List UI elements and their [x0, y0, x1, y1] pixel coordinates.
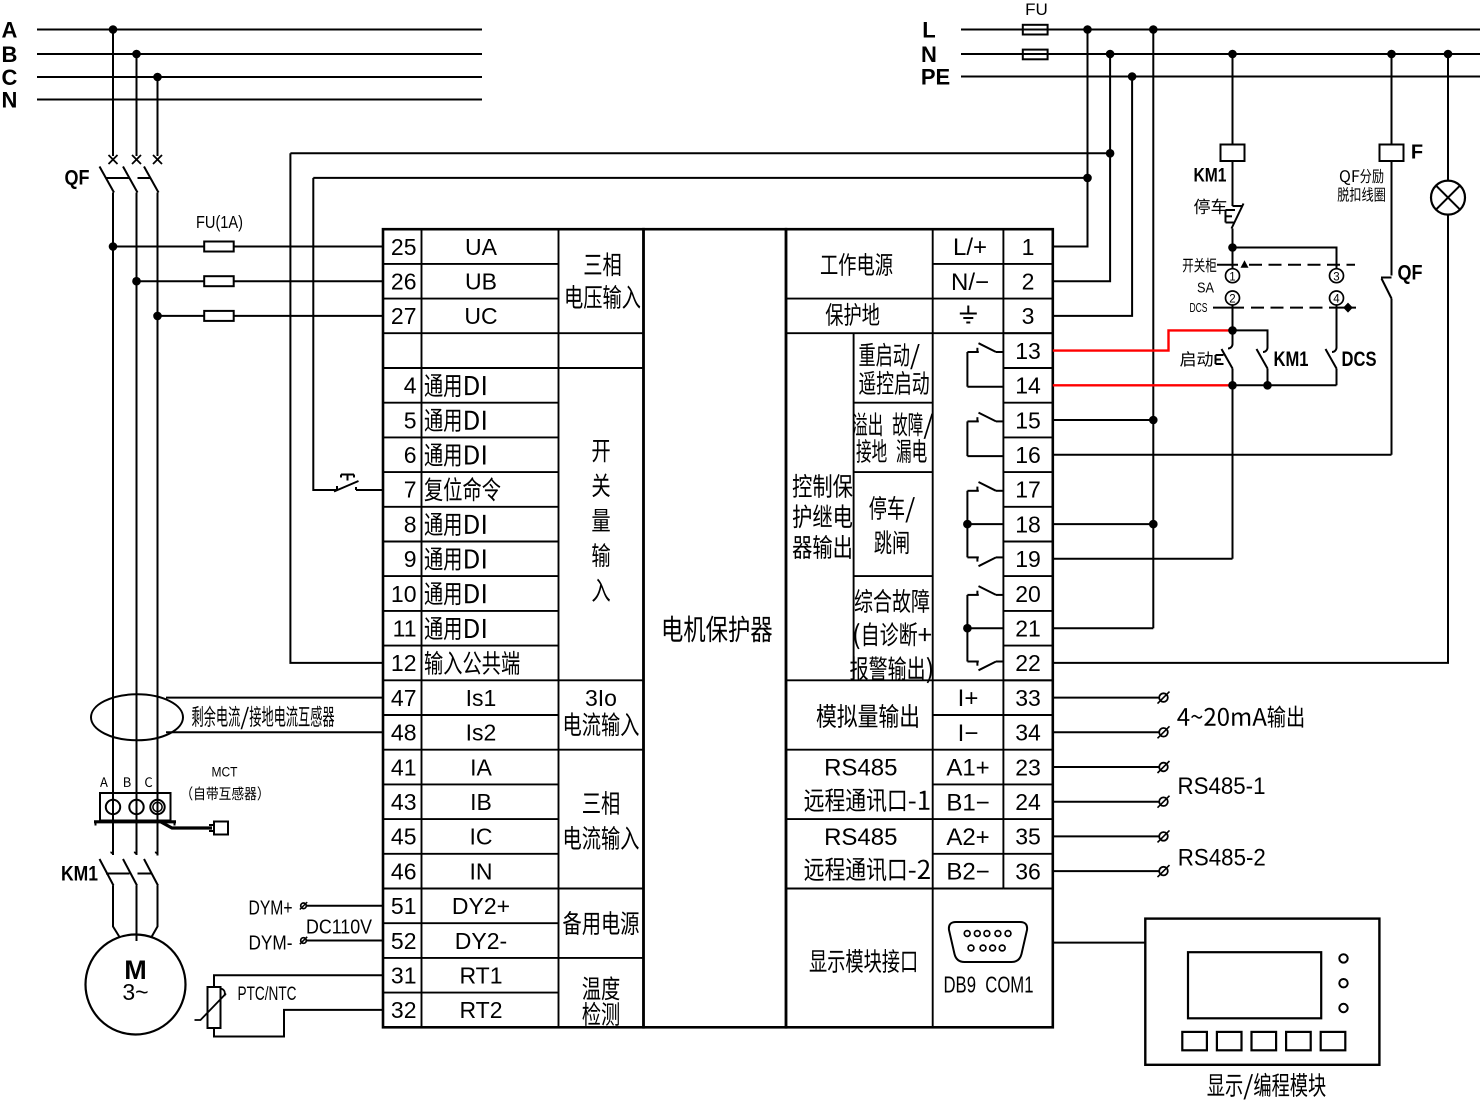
label FU	[1025, 0, 1048, 19]
wire thermistor to 32	[214, 1010, 383, 1037]
junction N KM1 branch	[1228, 50, 1237, 59]
bus N2	[961, 53, 1480, 55]
svg-text:RS485: RS485	[824, 824, 897, 851]
pin name 12	[425, 651, 520, 675]
svg-text:B2−: B2−	[946, 859, 989, 886]
svg-text:48: 48	[391, 720, 417, 746]
svg-text:DY2+: DY2+	[452, 893, 510, 919]
svg-text:6: 6	[404, 442, 417, 468]
terminal 6 number	[404, 442, 417, 468]
fuse FU(1A) phase C	[204, 311, 234, 321]
svg-text:9: 9	[404, 546, 417, 572]
wire SA branch right	[1233, 248, 1337, 269]
svg-text:DB9 COM1: DB9 COM1	[944, 971, 1034, 997]
net label N	[2, 87, 18, 112]
stub A2+ 35	[1053, 830, 1170, 842]
svg-text:FU: FU	[1025, 0, 1048, 19]
junction UC tap	[153, 312, 162, 321]
contactor KM1 label	[61, 863, 98, 886]
bus L	[961, 29, 1480, 31]
terminal 8 number	[404, 511, 417, 537]
pin name 51	[452, 893, 510, 919]
svg-text:2: 2	[1229, 294, 1235, 306]
terminal 4 number	[404, 373, 417, 399]
terminal 35 number	[1015, 824, 1041, 850]
display module screen	[1188, 952, 1321, 1018]
net label PE	[921, 64, 950, 89]
svg-text:IC: IC	[470, 824, 493, 850]
display module box	[1145, 919, 1379, 1065]
wire start to KM1-aux top	[1233, 330, 1268, 347]
svg-text:I−: I−	[958, 720, 979, 747]
phase mark B	[124, 777, 131, 787]
terminal 22 number	[1015, 650, 1041, 676]
pin name 48	[466, 720, 497, 746]
svg-text:KM1: KM1	[1194, 165, 1227, 186]
pin name 26	[465, 269, 497, 295]
svg-text:31: 31	[391, 963, 417, 989]
coil F (shunt trip)	[1380, 145, 1404, 162]
svg-text:A: A	[2, 17, 18, 42]
pin name 5	[425, 409, 486, 432]
svg-text:DC110V: DC110V	[306, 917, 373, 939]
terminal 24 number	[1015, 789, 1041, 815]
display module LEDs	[1339, 954, 1347, 1012]
wire fuse to terminal UB	[234, 280, 383, 282]
svg-text:IB: IB	[470, 789, 492, 815]
terminal 5 number	[404, 407, 417, 433]
svg-text:1: 1	[1229, 271, 1235, 283]
net label C	[2, 65, 18, 90]
pin I-	[958, 720, 979, 747]
svg-text:L/+: L/+	[953, 234, 987, 261]
svg-text:C: C	[2, 65, 18, 90]
svg-text:34: 34	[1015, 720, 1041, 746]
wire terminal 18	[1053, 523, 1154, 525]
svg-text:DCS: DCS	[1190, 301, 1208, 315]
SA linkage cabinet	[1217, 260, 1355, 268]
label SA switch-cabinet	[1183, 258, 1216, 273]
label PTC/NTC	[238, 983, 297, 1005]
junction 15 on common	[1149, 416, 1158, 425]
SA linkage DCS	[1213, 303, 1356, 313]
svg-text:MCT: MCT	[212, 764, 238, 780]
wire DYM+ to 51	[307, 905, 384, 907]
stub B1- 24	[1053, 796, 1170, 808]
wire Is1 to CT	[166, 697, 383, 699]
pushbutton reset (terminal 7)	[334, 475, 359, 492]
label DCS contact	[1342, 348, 1377, 371]
net label L	[922, 17, 935, 42]
terminal 43 number	[391, 789, 417, 815]
svg-text:Is2: Is2	[466, 720, 497, 746]
junction N drop	[1106, 50, 1115, 59]
wire phase B drop	[136, 54, 138, 156]
terminal 23 number	[1015, 754, 1041, 780]
CT residual-current transformer	[91, 694, 183, 740]
svg-text:RS485-2: RS485-2	[1178, 845, 1266, 872]
terminal 25 number	[391, 234, 417, 260]
svg-text:KM1: KM1	[61, 863, 98, 886]
pin L/+	[953, 234, 987, 261]
svg-text:7: 7	[404, 477, 417, 503]
svg-text:N: N	[2, 87, 18, 112]
wire lamp to terminal 22	[1053, 215, 1448, 663]
terminal 11 number	[393, 616, 417, 642]
pin name 9	[425, 548, 486, 571]
indicator lamp	[1431, 181, 1465, 215]
label comprehensive fault	[850, 589, 932, 683]
terminal 20 number	[1015, 581, 1041, 607]
svg-text:IA: IA	[470, 754, 492, 780]
SA contact 1	[1226, 269, 1240, 284]
svg-text:5: 5	[404, 407, 417, 433]
label QF aux	[1398, 262, 1423, 285]
svg-text:13: 13	[1015, 338, 1041, 364]
svg-text:FU(1A): FU(1A)	[196, 212, 243, 232]
junction 18 on common	[1149, 520, 1158, 529]
svg-text:DCS: DCS	[1342, 348, 1377, 371]
svg-text:2: 2	[1022, 269, 1035, 295]
wire L to terminal 1	[1053, 30, 1088, 247]
fuse FU(1A) label	[196, 212, 243, 232]
wire F coil to QF aux	[1391, 161, 1393, 276]
svg-text:UC: UC	[464, 303, 497, 329]
bus C	[37, 76, 482, 78]
svg-text:Is1: Is1	[466, 685, 497, 711]
svg-text:IN: IN	[470, 858, 493, 884]
wire SA4 down	[1336, 305, 1338, 348]
junction UA tap	[109, 242, 118, 251]
svg-text:26: 26	[391, 269, 417, 295]
coil KM1 label	[1194, 165, 1227, 186]
svg-text:1: 1	[1022, 234, 1035, 260]
label MCT	[212, 764, 238, 780]
terminal 51 number	[391, 893, 417, 919]
relay contact 15-16	[967, 413, 1003, 457]
terminal 13 number	[1015, 338, 1041, 364]
motor M 3-phase	[86, 935, 186, 1035]
junction L drop2	[1149, 25, 1158, 34]
svg-text:20: 20	[1015, 581, 1041, 607]
phase mark C	[145, 777, 152, 787]
terminal 1 number	[1022, 234, 1035, 260]
pushbutton start (NO)	[1216, 330, 1233, 385]
motor protector box	[644, 229, 787, 1027]
wire SA left upper	[1232, 248, 1234, 269]
pin name 25	[465, 234, 498, 260]
terminal block right grid	[786, 229, 1053, 1027]
svg-text:3: 3	[1333, 271, 1339, 283]
label RS485 port-1	[805, 755, 930, 812]
terminal 7 number	[404, 477, 417, 503]
terminal 3 number	[1022, 303, 1035, 329]
relay contact 20-21-22	[963, 586, 1003, 670]
pin name 6	[425, 444, 486, 467]
terminal 33 number	[1015, 685, 1041, 711]
terminal 2 number	[1022, 269, 1035, 295]
terminal 12 number	[391, 650, 417, 676]
display module buttons	[1182, 1032, 1345, 1050]
SA contact 3	[1330, 269, 1344, 284]
label protective earth	[826, 303, 880, 326]
svg-text:4: 4	[1333, 294, 1340, 306]
svg-text:RS485: RS485	[824, 755, 897, 782]
wire Is2 to CT	[166, 731, 383, 733]
pin name 11	[425, 617, 486, 640]
svg-text:F: F	[1411, 142, 1423, 164]
coil KM1	[1221, 145, 1245, 162]
wire terminal 19 riser	[1232, 385, 1234, 559]
MCT output cable	[161, 822, 212, 828]
wire UB to fuse	[137, 280, 205, 282]
wire terminal 13 (red)	[1053, 330, 1233, 350]
junction on bus C	[153, 73, 162, 82]
terminal 9 number	[404, 546, 417, 572]
group label temperature detect	[582, 976, 619, 1026]
stub I- 34	[1053, 726, 1170, 738]
terminal 34 number	[1015, 720, 1041, 746]
relay contact 13-14	[967, 343, 1003, 387]
wire terminal 19	[1053, 558, 1233, 560]
pin name 10	[425, 582, 486, 605]
label motor protector	[664, 616, 772, 643]
wire UA to fuse	[113, 246, 204, 248]
motor letter M	[124, 955, 147, 985]
bus A	[37, 29, 482, 31]
svg-text:24: 24	[1015, 789, 1041, 815]
svg-text:16: 16	[1015, 442, 1041, 468]
pin name 8	[425, 513, 486, 536]
junction reset feed	[1083, 174, 1092, 183]
pin name 47	[466, 685, 497, 711]
svg-text:17: 17	[1015, 477, 1041, 503]
label MCT note	[189, 786, 261, 800]
junction stop-SA	[1228, 243, 1237, 252]
svg-text:PTC/NTC: PTC/NTC	[238, 983, 297, 1005]
wire reset button to terminal 7	[356, 489, 383, 491]
svg-text:8: 8	[404, 511, 417, 537]
SA contact 2	[1226, 291, 1240, 306]
svg-text:43: 43	[391, 789, 417, 815]
wire DYM- to 52	[307, 940, 384, 942]
wire N to F coil	[1391, 54, 1393, 145]
terminal 36 number	[1015, 858, 1041, 884]
svg-text:3: 3	[1022, 303, 1035, 329]
pin name 32	[459, 997, 502, 1023]
label RS485-2	[1178, 845, 1266, 872]
wire terminal 14 (red)	[1053, 384, 1233, 386]
junction start bottom	[1228, 381, 1237, 390]
label KM1 auxiliary	[1274, 348, 1309, 371]
junction N lamp branch	[1444, 50, 1453, 59]
svg-text:12: 12	[391, 650, 417, 676]
pin name 52	[455, 928, 507, 954]
svg-text:21: 21	[1015, 616, 1041, 642]
pin name 43	[470, 789, 492, 815]
group label backup supply	[563, 911, 639, 935]
label working supply	[821, 253, 892, 276]
svg-text:51: 51	[391, 893, 417, 919]
svg-text:22: 22	[1015, 650, 1041, 676]
wire L relay common	[1152, 30, 1154, 629]
label overflow fault / earth leakage	[853, 412, 933, 463]
pin name 4	[425, 374, 486, 397]
wire N to lamp	[1447, 54, 1449, 181]
wire terminal 15	[1053, 419, 1154, 421]
svg-text:45: 45	[391, 824, 417, 850]
svg-text:QF: QF	[65, 167, 90, 190]
svg-text:33: 33	[1015, 685, 1041, 711]
group label 3Io current input	[565, 685, 639, 736]
svg-text:14: 14	[1015, 373, 1041, 399]
terminal 10 number	[391, 581, 417, 607]
terminal 15 number	[1015, 407, 1041, 433]
terminal 41 number	[391, 754, 417, 780]
pin name 41	[470, 754, 492, 780]
wire phase C drop	[157, 77, 159, 156]
svg-text:19: 19	[1015, 546, 1041, 572]
terminal 18 number	[1015, 511, 1041, 537]
svg-text:4: 4	[404, 373, 417, 399]
label F	[1411, 142, 1423, 164]
pin N/-	[951, 269, 989, 296]
wire B below QF	[136, 193, 138, 856]
terminal block left grid	[383, 229, 644, 1027]
wire phase A drop	[112, 30, 114, 157]
wire PE to terminal 3	[1053, 77, 1132, 316]
connector DYM+	[300, 902, 307, 909]
svg-text:47: 47	[391, 685, 417, 711]
label DB9 COM1	[944, 971, 1034, 997]
label DC110V	[306, 917, 373, 939]
connector DYM-	[300, 937, 307, 944]
wire N to KM1 coil	[1232, 54, 1234, 145]
svg-text:27: 27	[391, 303, 417, 329]
svg-text:52: 52	[391, 928, 417, 954]
junction PE drop	[1128, 72, 1137, 81]
svg-text:18: 18	[1015, 511, 1041, 537]
wire N to terminal 2	[1053, 54, 1110, 281]
label RS485-1	[1178, 773, 1266, 800]
wire terminal 16	[1053, 454, 1392, 456]
wire fuse to terminal UC	[234, 315, 383, 317]
svg-text:23: 23	[1015, 754, 1041, 780]
net label A	[2, 17, 18, 42]
label residual CT	[192, 706, 334, 730]
pin name 7	[425, 477, 501, 501]
wire KM1 to motor C	[152, 886, 158, 938]
terminal 19 number	[1015, 546, 1041, 572]
label display/programming module	[1208, 1073, 1326, 1100]
svg-text:B: B	[2, 42, 18, 67]
svg-text:10: 10	[391, 581, 417, 607]
pin name 27	[464, 303, 497, 329]
svg-text:3~: 3~	[122, 979, 148, 1005]
label control relay output	[793, 474, 853, 559]
junction DI-common feed	[1106, 149, 1115, 158]
junction start top	[1228, 326, 1237, 335]
svg-text:RT2: RT2	[459, 997, 502, 1023]
terminal 31 number	[391, 963, 417, 989]
svg-text:15: 15	[1015, 407, 1041, 433]
label 4-20mA output	[1177, 705, 1303, 727]
svg-text:36: 36	[1015, 858, 1041, 884]
label display module interface	[810, 949, 916, 973]
svg-text:QF: QF	[1398, 262, 1423, 285]
junction on bus A	[109, 25, 118, 34]
wire KM1 to motor A	[113, 886, 120, 938]
label DYM+	[249, 898, 293, 920]
label start button	[1180, 351, 1212, 367]
wire N-feed to input common 12	[290, 153, 1110, 663]
svg-text:UB: UB	[465, 269, 497, 295]
relay contact 17-18-19	[963, 482, 1003, 566]
wire L-feed to reset button	[313, 178, 1087, 490]
wire DB9 to display module	[1053, 942, 1146, 944]
fuse FU on N	[1023, 50, 1048, 60]
svg-text:N: N	[921, 42, 937, 67]
wire terminal 21	[1053, 627, 1154, 629]
svg-text:25: 25	[391, 234, 417, 260]
ground symbol	[960, 306, 977, 323]
group label switching input	[592, 440, 610, 602]
terminal 16 number	[1015, 442, 1041, 468]
terminal 14 number	[1015, 373, 1041, 399]
terminal 47 number	[391, 685, 417, 711]
phase mark A	[100, 777, 108, 787]
pin A1+	[946, 755, 989, 782]
bus PE	[961, 76, 1480, 78]
net label B	[2, 42, 18, 67]
svg-text:11: 11	[393, 616, 417, 642]
terminal 26 number	[391, 269, 417, 295]
breaker QF label	[65, 167, 90, 190]
svg-text:DYM-: DYM-	[249, 933, 293, 955]
DB9 connector	[949, 922, 1027, 962]
stub A1+ 23	[1053, 761, 1170, 773]
svg-text:KM1: KM1	[1274, 348, 1309, 371]
group label three-phase current input	[565, 791, 639, 850]
wire fuse to terminal UA	[234, 246, 383, 248]
terminal 48 number	[391, 720, 417, 746]
pin A2+	[946, 824, 989, 851]
junction on bus B	[132, 50, 141, 59]
motor 3~	[122, 979, 148, 1005]
contact KM1 auxiliary	[1257, 348, 1268, 386]
switch QF auxiliary	[1381, 278, 1392, 455]
svg-text:A2+: A2+	[946, 824, 989, 851]
bus B	[37, 53, 482, 55]
wire C below QF	[157, 193, 159, 856]
terminal 17 number	[1015, 477, 1041, 503]
wire 31 to thermistor	[214, 975, 383, 987]
wire KM1 to motor B	[136, 886, 138, 942]
fuse FU(1A) phase A	[204, 242, 234, 252]
svg-text:SA: SA	[1197, 279, 1214, 296]
svg-text:32: 32	[391, 997, 417, 1023]
wire SA2 down	[1232, 305, 1234, 330]
junction N F branch	[1387, 50, 1396, 59]
label analog output	[817, 704, 918, 728]
terminal 45 number	[391, 824, 417, 850]
label stop button	[1194, 199, 1226, 215]
svg-text:B1−: B1−	[946, 789, 989, 816]
terminal 32 number	[391, 997, 417, 1023]
thermistor RT (PTC/NTC)	[195, 987, 227, 1028]
svg-text:A1+: A1+	[946, 755, 989, 782]
svg-text:UA: UA	[465, 234, 498, 260]
